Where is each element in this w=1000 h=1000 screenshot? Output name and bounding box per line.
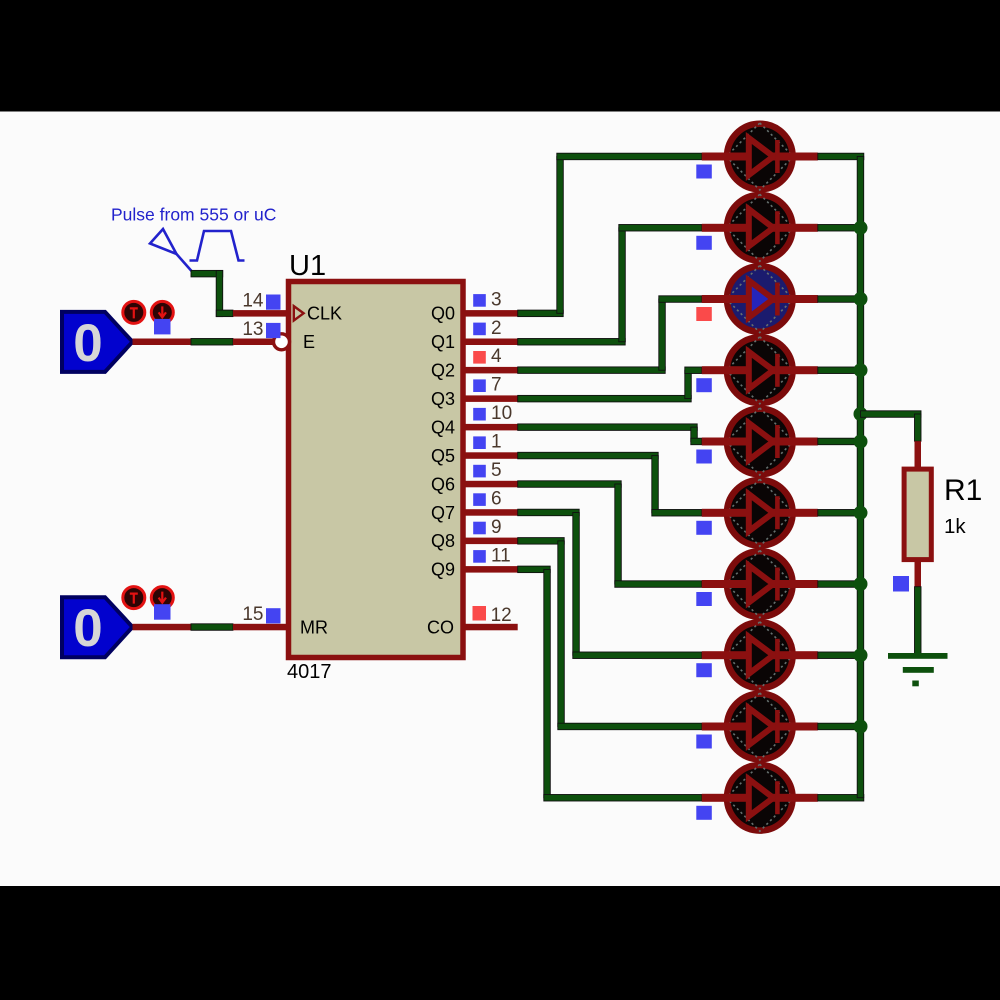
wire LED to bus (818, 652, 864, 659)
pin Q0 stub (463, 310, 518, 317)
pin Q5 stub (463, 452, 518, 459)
svg-text:11: 11 (491, 545, 511, 566)
inversion bubble on E pin (274, 334, 290, 350)
svg-text:4017: 4017 (287, 661, 332, 683)
LED D7 (702, 551, 818, 618)
wire Q7 to LED8 (518, 509, 702, 658)
svg-text:CO: CO (427, 617, 454, 637)
logic indicator square (696, 450, 712, 464)
logic indicator square (893, 576, 909, 592)
wire (CLK pin stub) (233, 310, 289, 317)
junction (R1 tap) (854, 407, 868, 421)
LED D9 (702, 693, 818, 760)
svg-text:Pulse from 555 or uC: Pulse from 555 or uC (111, 205, 276, 225)
svg-text:4: 4 (491, 346, 502, 367)
wire LED to bus (818, 795, 864, 802)
wire Q0 to LED1 (518, 153, 702, 316)
svg-text:MR: MR (300, 617, 328, 637)
resistor R1 bottom pin (915, 560, 922, 587)
svg-text:Q6: Q6 (431, 474, 455, 494)
wire LED to bus (818, 581, 864, 588)
logic indicator square (473, 436, 486, 449)
svg-text:1k: 1k (944, 515, 966, 538)
wire bus (LED cathodes) (857, 157, 864, 798)
svg-text:5: 5 (491, 460, 502, 481)
toggle button (up) (123, 301, 145, 323)
svg-text:Q5: Q5 (431, 446, 455, 466)
svg-text:Q9: Q9 (431, 560, 455, 580)
svg-text:Q8: Q8 (431, 531, 455, 551)
resistor R1 top pin (915, 441, 922, 469)
wire Q4 to LED5 (518, 424, 702, 445)
logic indicator square (473, 294, 486, 307)
pin Q3 stub (463, 395, 518, 402)
svg-text:6: 6 (491, 489, 502, 510)
logic indicator square (473, 493, 486, 506)
logic indicator square (266, 323, 281, 338)
wire (191, 270, 223, 277)
wire (216, 310, 233, 317)
LED D3 (lit) (702, 266, 818, 333)
svg-text:15: 15 (242, 604, 263, 625)
svg-text:Q3: Q3 (431, 389, 455, 409)
pin Q4 stub (463, 424, 518, 431)
wire LED to bus (818, 723, 864, 730)
logic indicator square (473, 465, 486, 478)
wire LED to bus (818, 296, 864, 303)
wire Q3 to LED4 (518, 367, 702, 402)
IC U1 4017 body (289, 282, 464, 658)
logic indicator square (696, 307, 712, 321)
junction (854, 221, 868, 235)
toggle button (down) (151, 301, 173, 323)
logicstate input 0 (bottom) (62, 597, 133, 658)
svg-text:E: E (303, 332, 315, 352)
logic indicator square (473, 408, 486, 421)
svg-text:12: 12 (491, 605, 512, 626)
logic indicator square (696, 592, 712, 606)
logic indicator square (266, 608, 281, 623)
logic indicator square (266, 295, 281, 310)
logic indicator square (696, 521, 712, 535)
svg-text:1: 1 (491, 432, 502, 453)
pin Q1 stub (463, 339, 518, 346)
svg-text:9: 9 (491, 517, 502, 538)
LED D6 (702, 479, 818, 546)
svg-text:Q2: Q2 (431, 361, 455, 381)
logic indicator square (696, 165, 712, 179)
logic indicator square (696, 663, 712, 677)
logic indicator square (154, 319, 171, 335)
pin Q8 stub (463, 538, 518, 545)
svg-text:13: 13 (242, 319, 263, 340)
wire LED to bus (818, 367, 864, 374)
wire R1 to ground (915, 587, 922, 656)
svg-text:2: 2 (491, 318, 502, 339)
logicstate input 0 (top) (62, 312, 133, 373)
wire Q8 to LED9 (518, 538, 702, 730)
pin Q7 stub (463, 509, 518, 516)
logic indicator square (473, 606, 487, 621)
svg-text:Q1: Q1 (431, 332, 455, 352)
pin Q9 stub (463, 566, 518, 573)
pin Q6 stub (463, 481, 518, 488)
logic indicator square (696, 236, 712, 250)
svg-text:Q4: Q4 (431, 417, 455, 437)
junction (854, 506, 868, 520)
svg-text:U1: U1 (289, 250, 326, 282)
wire Q5 to LED6 (518, 452, 702, 516)
svg-text:R1: R1 (944, 474, 982, 507)
wire Q9 to LED10 (518, 566, 702, 801)
ground (888, 653, 948, 686)
logic indicator square (473, 379, 486, 392)
svg-text:14: 14 (242, 290, 264, 311)
wire Q6 to LED7 (518, 481, 702, 588)
junction (854, 292, 868, 306)
junction (854, 435, 868, 449)
svg-text:7: 7 (491, 375, 502, 396)
LED D10 (702, 764, 818, 831)
svg-text:3: 3 (491, 289, 502, 310)
wire bus to R1 (861, 411, 922, 441)
logic indicator square (696, 806, 712, 820)
wire LED to bus (818, 510, 864, 517)
LED D4 (702, 337, 818, 404)
LED D8 (702, 622, 818, 689)
wire (216, 271, 223, 317)
logic indicator square (696, 735, 712, 749)
logic indicator square (154, 604, 171, 620)
wire (191, 339, 233, 346)
logic indicator square (473, 323, 486, 336)
svg-text:Q7: Q7 (431, 503, 455, 523)
clock input triangle (294, 306, 304, 320)
svg-text:0: 0 (73, 314, 102, 373)
toggle button (up) (123, 587, 145, 609)
svg-text:Q0: Q0 (431, 304, 455, 324)
wire (IC pin stub) (233, 339, 289, 346)
wire (connector pin) (133, 339, 192, 346)
junction (854, 577, 868, 591)
wire (IC pin stub) (233, 624, 289, 631)
pulse waveform symbol (150, 229, 245, 271)
logic indicator square (473, 351, 486, 364)
wire (connector pin) (133, 624, 192, 631)
wire Q1 to LED2 (518, 225, 702, 346)
svg-text:0: 0 (73, 599, 102, 658)
logic indicator square (696, 378, 712, 392)
pin Q2 stub (463, 367, 518, 374)
wire LED to bus (818, 438, 864, 445)
junction (854, 363, 868, 377)
wire LED to bus (818, 153, 864, 160)
logic indicator square (473, 522, 486, 535)
pin CO stub (463, 624, 518, 631)
resistor R1 (904, 469, 931, 559)
LED D2 (702, 194, 818, 261)
wire LED to bus (818, 225, 864, 232)
wire Q2 to LED3 (518, 296, 702, 374)
toggle button (down) (151, 587, 173, 609)
junction (854, 720, 868, 734)
LED D1 (702, 123, 818, 190)
wire (191, 624, 233, 631)
svg-text:CLK: CLK (307, 304, 342, 324)
svg-text:10: 10 (491, 403, 512, 424)
logic indicator square (473, 550, 486, 563)
LED D5 (702, 408, 818, 475)
junction (854, 648, 868, 662)
